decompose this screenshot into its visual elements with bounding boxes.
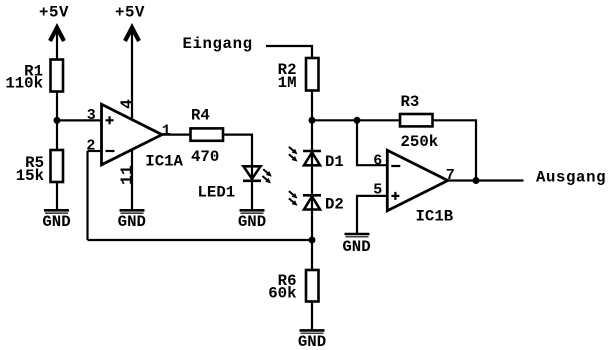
op-amp IC1B minus input marking bbox=[391, 165, 400, 167]
wire IC1B output to Ausgang bbox=[448, 179, 524, 181]
ground under IC1A pin 11 bbox=[118, 210, 146, 231]
wire feedback vertical from pin 2 bbox=[86, 151, 88, 240]
wire node C down to pin 6 bbox=[357, 120, 387, 165]
wire R6 to ground bbox=[311, 302, 313, 331]
resistor R4 labels bbox=[191, 107, 219, 167]
resistor R3 labels bbox=[401, 93, 439, 151]
svg-text:LED1: LED1 bbox=[198, 184, 236, 202]
svg-text:+5V: +5V bbox=[115, 4, 145, 22]
wire node A to pin 3 bbox=[57, 119, 102, 121]
wire R2 to node B bbox=[311, 91, 313, 121]
wire feedback bottom rail bbox=[88, 239, 313, 241]
svg-text:IC1B: IC1B bbox=[416, 208, 454, 226]
wire pin 2 stub bbox=[88, 150, 102, 152]
svg-text:+5V: +5V bbox=[39, 4, 69, 22]
op-amp IC1B bbox=[387, 150, 448, 210]
svg-text:11: 11 bbox=[118, 165, 137, 185]
photodiode D1 bbox=[303, 151, 321, 165]
photodiode D2 bbox=[303, 195, 321, 209]
svg-text:GND: GND bbox=[238, 213, 266, 231]
LED LED1 bbox=[243, 166, 261, 209]
wire node C to R3 bbox=[357, 119, 400, 121]
resistor R6 labels bbox=[268, 272, 296, 302]
wire IC1A output to R4 bbox=[162, 134, 191, 136]
wire pin 5 to ground bbox=[357, 196, 387, 234]
photodiode D2 light arrows bbox=[289, 191, 298, 206]
node D junction bbox=[309, 237, 316, 244]
resistor R5 labels bbox=[16, 154, 44, 185]
svg-text:3: 3 bbox=[87, 107, 96, 124]
ground under IC1B pin 5 bbox=[342, 234, 370, 256]
wire node B to node C bbox=[312, 119, 357, 121]
svg-text:D1: D1 bbox=[325, 153, 344, 171]
svg-text:110k: 110k bbox=[5, 75, 43, 93]
wire pin 11 to ground bbox=[131, 150, 133, 210]
op-amp IC1B plus input marking bbox=[391, 192, 399, 200]
node B junction bbox=[309, 117, 316, 124]
svg-text:Eingang: Eingang bbox=[183, 35, 253, 53]
svg-text:1M: 1M bbox=[278, 74, 297, 92]
op-amp IC1A minus input marking bbox=[106, 150, 115, 152]
wire D2 to node D bbox=[311, 210, 313, 241]
op-amp IC1A bbox=[102, 104, 163, 165]
wire R4 to LED1 bbox=[223, 135, 252, 167]
node E output junction bbox=[473, 177, 480, 184]
svg-text:GND: GND bbox=[42, 213, 70, 231]
ground under LED1 bbox=[238, 210, 266, 231]
node A junction bbox=[54, 117, 61, 124]
svg-text:6: 6 bbox=[373, 153, 382, 170]
ground under R6 bbox=[298, 330, 326, 350]
svg-text:4: 4 bbox=[118, 99, 137, 109]
wire R5 to ground bbox=[56, 182, 58, 210]
supply +5V (right) arrow bbox=[125, 28, 139, 120]
node C junction bbox=[354, 117, 361, 124]
svg-text:15k: 15k bbox=[16, 167, 44, 185]
svg-text:R3: R3 bbox=[401, 93, 420, 111]
resistor R2 bbox=[306, 58, 319, 91]
LED1 emission arrows bbox=[262, 169, 271, 183]
resistor R1 bbox=[51, 60, 64, 92]
ground under R5 bbox=[42, 210, 70, 231]
resistor R2 labels bbox=[278, 61, 297, 92]
wire R3 to output node bbox=[433, 120, 477, 180]
wire R1 to R5 bbox=[56, 92, 58, 151]
wire D1 to D2 bbox=[311, 165, 313, 209]
svg-text:R4: R4 bbox=[191, 107, 210, 125]
photodiode D1 light arrows bbox=[289, 147, 298, 162]
svg-text:1: 1 bbox=[162, 123, 171, 140]
svg-text:IC1A: IC1A bbox=[145, 153, 183, 171]
svg-text:GND: GND bbox=[298, 333, 326, 350]
resistor R4 bbox=[191, 128, 224, 140]
svg-text:250k: 250k bbox=[401, 133, 439, 151]
resistor R6 bbox=[306, 270, 319, 302]
svg-text:Ausgang: Ausgang bbox=[536, 168, 606, 186]
svg-text:GND: GND bbox=[342, 238, 370, 256]
op-amp IC1A plus input marking bbox=[106, 116, 114, 124]
svg-text:GND: GND bbox=[118, 213, 146, 231]
resistor R3 bbox=[400, 114, 433, 126]
svg-text:470: 470 bbox=[191, 148, 219, 166]
wire Eingang to R2 bbox=[266, 46, 312, 58]
supply +5V (left) arrow bbox=[50, 28, 64, 60]
wire node B down to D1 bbox=[311, 120, 313, 165]
resistor R5 bbox=[51, 150, 64, 182]
resistor R1 labels bbox=[5, 63, 43, 93]
svg-text:D2: D2 bbox=[325, 196, 344, 214]
svg-text:60k: 60k bbox=[268, 284, 296, 302]
svg-text:5: 5 bbox=[373, 181, 382, 198]
wire node D to R6 bbox=[311, 240, 313, 270]
